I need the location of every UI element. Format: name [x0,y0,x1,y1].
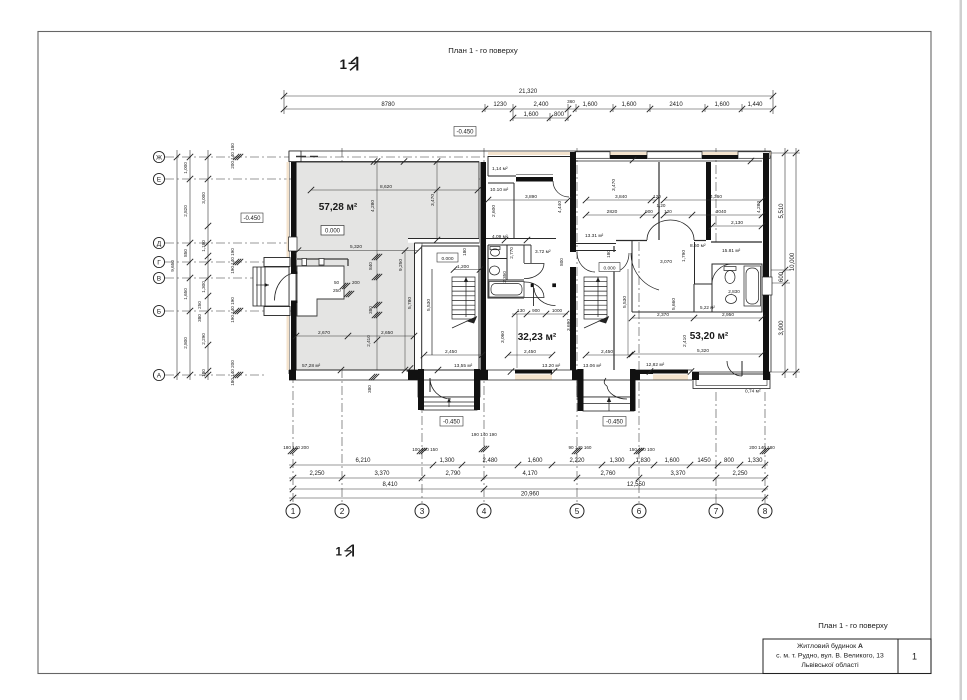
left vertical dim lines [177,150,208,380]
vestibule2 door arc [604,378,607,386]
wall pier marks [302,259,307,266]
corner notch top-left [289,151,301,162]
svg-text:4,360: 4,360 [710,194,722,200]
top face [289,150,771,152]
svg-text:1,650: 1,650 [183,288,188,300]
bottom bubbles [286,504,772,518]
svg-text:3,690: 3,690 [566,319,572,331]
svg-text:13.31 м²: 13.31 м² [585,233,604,239]
svg-text:8,410: 8,410 [382,482,398,488]
svg-text:1,300: 1,300 [201,281,206,293]
dim line third row [513,117,568,119]
svg-text:5,780: 5,780 [407,297,413,309]
svg-text:150 190 100: 150 190 100 [629,447,655,452]
row1 ticks [290,462,768,468]
svg-text:4,280: 4,280 [370,200,376,212]
svg-text:8,620: 8,620 [380,184,392,190]
apt1 tick clusters center [340,283,350,289]
left tick clusters [233,154,243,378]
svg-text:3,470: 3,470 [430,194,436,206]
ticks on room top [371,158,377,164]
svg-text:5: 5 [575,507,580,516]
apt2 niche 1,14 [487,155,570,176]
svg-text:1,600: 1,600 [664,458,680,464]
axis В [165,277,254,279]
bay door arc [727,361,742,376]
svg-text:2,350: 2,350 [502,271,507,283]
sink apt2 [490,266,500,275]
svg-text:А: А [157,373,162,380]
svg-text:32,23 м²: 32,23 м² [518,332,557,343]
bottom wall window 2 [653,370,688,374]
svg-text:2,250: 2,250 [309,471,325,477]
apt2 corridor door D1 [524,264,544,279]
wall ticks [502,237,508,243]
svg-text:3040: 3040 [716,209,727,215]
vestibule 1 [418,380,480,410]
svg-text:2,450: 2,450 [524,349,536,355]
svg-text:2,650: 2,650 [381,330,393,336]
svg-text:57,28 м²: 57,28 м² [302,363,321,369]
svg-text:50: 50 [334,280,340,285]
svg-text:3,890: 3,890 [525,194,537,200]
svg-text:1: 1 [291,507,296,516]
svg-text:3: 3 [420,507,425,516]
svg-text:20,960: 20,960 [521,492,540,498]
stair2 room wall [613,246,615,370]
svg-text:3,370: 3,370 [670,471,686,477]
svg-text:2,220: 2,220 [569,458,585,464]
porch wing walls [264,258,290,267]
svg-text:2,410: 2,410 [366,335,371,347]
apt1 vertical dim lines inside [376,162,378,371]
svg-text:6: 6 [637,507,642,516]
door jambs black [531,283,534,287]
svg-text:2,450: 2,450 [445,349,457,355]
svg-text:5,660: 5,660 [671,298,677,310]
row3 ticks [290,486,296,492]
bubble В [153,272,164,283]
svg-text:-0.450: -0.450 [443,420,461,426]
svg-text:2,250: 2,250 [732,471,748,477]
level box 0.000 apt1 [321,226,344,236]
apt1 stair room [422,246,479,370]
svg-text:1,14 м²: 1,14 м² [492,166,508,172]
axis А [165,374,265,376]
svg-text:1: 1 [340,57,348,72]
bubble Г [153,256,164,267]
scan artifact right edge [960,0,963,700]
right wall window [762,277,772,295]
apt3 arch arc [647,220,694,240]
bathtub apt2 [489,282,524,298]
svg-text:3,000: 3,000 [201,192,206,204]
svg-text:2,790: 2,790 [445,471,461,477]
svg-text:380: 380 [368,306,373,314]
svg-text:3,470: 3,470 [611,179,617,191]
apt3 toilet [724,267,736,284]
svg-text:2,670: 2,670 [318,330,330,336]
bubble Д [153,237,164,248]
svg-text:с. м. т. Рудно, вул. В. Велик: с. м. т. Рудно, вул. В. Великого, 13 [776,653,884,660]
stairs apt2/3 [584,277,609,328]
row4 ticks [290,495,296,501]
svg-text:2,130: 2,130 [731,220,743,226]
svg-text:180: 180 [201,369,206,377]
dim line 130/900/1000 [512,313,568,315]
svg-text:1,600: 1,600 [621,102,637,108]
svg-text:2: 2 [340,507,345,516]
apt3 dim 5,320 [632,353,762,355]
bath appliance marks [737,264,742,268]
svg-text:13.20 м²: 13.20 м² [542,363,561,369]
svg-text:1230: 1230 [493,102,507,108]
svg-text:800: 800 [554,112,565,118]
svg-text:90 140 160: 90 140 160 [569,445,592,450]
svg-text:1,440: 1,440 [747,102,763,108]
svg-text:180 140 200: 180 140 200 [230,360,235,386]
svg-text:800: 800 [724,458,735,464]
stairs apt1 [432,269,477,355]
svg-text:1,300: 1,300 [439,458,455,464]
svg-text:600: 600 [779,271,785,282]
party wall door gap [570,252,576,267]
svg-text:190 140 190: 190 140 190 [230,248,235,274]
svg-text:180: 180 [606,250,611,258]
svg-text:9,650: 9,650 [170,260,175,272]
svg-text:4,440: 4,440 [557,201,563,213]
niche window black bar [516,177,553,182]
svg-text:180: 180 [462,248,467,256]
svg-text:5,320: 5,320 [697,348,709,354]
svg-text:200 140 180: 200 140 180 [749,445,775,450]
svg-text:Б: Б [157,309,161,316]
svg-text:В: В [157,276,162,283]
svg-text:3,840: 3,840 [615,194,627,200]
axis Е [165,178,487,180]
party wall 2 black [570,152,576,370]
svg-text:12,82 м²: 12,82 м² [646,362,665,368]
svg-text:-0.450: -0.450 [606,420,624,426]
top wall inner line left [296,161,479,163]
right wall black [763,153,769,277]
svg-text:800: 800 [559,258,564,266]
svg-text:2,800: 2,800 [183,337,188,349]
svg-text:380: 380 [197,314,202,322]
bottom dim texts row1 [355,458,763,464]
svg-text:1,300: 1,300 [609,458,625,464]
svg-text:100 190 150: 100 190 150 [412,447,438,452]
svg-text:15.81 м²: 15.81 м² [722,248,741,254]
left face [288,151,290,374]
gray room fill apt1 [296,162,479,370]
svg-text:0.000: 0.000 [441,256,453,262]
svg-text:5,530: 5,530 [426,299,432,311]
bottom dim texts row3 [382,482,645,488]
svg-text:3,900: 3,900 [779,320,785,336]
stair2 top wall [576,243,616,245]
svg-text:2,410: 2,410 [682,335,688,347]
bubble А [153,369,164,380]
svg-text:3.72 м²: 3.72 м² [535,249,551,255]
10.10 door arc [553,181,569,197]
svg-text:8: 8 [763,507,768,516]
svg-text:13,55 м²: 13,55 м² [454,363,473,369]
column axis lines [292,374,294,503]
svg-text:2,950: 2,950 [722,312,734,318]
svg-text:8.60 м²: 8.60 м² [690,243,706,249]
level mark -0.450 top [454,127,476,137]
svg-text:840: 840 [368,262,373,270]
svg-text:0.000: 0.000 [325,229,341,235]
svg-text:Львівської області: Львівської області [801,661,859,669]
svg-text:10,000: 10,000 [790,252,796,271]
living room door arc apt2 [534,288,556,306]
apt3 black wall x706 [706,162,711,240]
room 10.10 walls [486,183,556,239]
svg-text:1,200: 1,200 [457,264,469,270]
svg-text:2,450: 2,450 [601,349,613,355]
top wall window boxes [575,152,770,159]
svg-text:120: 120 [653,194,661,199]
apt3 top dims [664,199,762,201]
svg-text:4: 4 [482,507,487,516]
svg-text:0,74 м²: 0,74 м² [745,389,761,395]
stair2 right door gap [613,252,617,271]
bottom dim texts row2 [309,471,748,477]
svg-text:2,600: 2,600 [491,205,497,217]
svg-text:57,28 м²: 57,28 м² [319,202,358,213]
svg-text:360: 360 [567,99,575,104]
svg-text:План 1 - го поверху: План 1 - го поверху [448,46,518,55]
svg-text:1,600: 1,600 [527,458,543,464]
svg-text:130: 130 [517,308,525,313]
bottom face lines [289,369,692,371]
svg-text:900: 900 [532,308,540,313]
svg-text:2,760: 2,760 [600,471,616,477]
right face [770,151,772,372]
svg-text:-0.450: -0.450 [243,216,261,222]
apt3 sink [726,295,737,304]
vestibule 2 [577,380,635,411]
title block [763,639,931,674]
svg-text:1: 1 [912,652,917,662]
apt2 bathroom [488,245,531,298]
svg-text:1: 1 [336,547,343,559]
apt3 wall y240 with arch [616,241,762,243]
svg-text:4,170: 4,170 [522,471,538,477]
entry door arc apt1 [275,273,297,301]
toilet apt2 [490,247,500,257]
svg-text:1,600: 1,600 [582,102,598,108]
svg-text:1,180: 1,180 [201,240,206,252]
svg-text:4,09 м²: 4,09 м² [492,234,508,240]
bottom wall window 1 [515,370,552,374]
bottom wall black stubs [289,370,296,380]
svg-text:3,070: 3,070 [660,259,672,265]
axis Д [165,242,290,244]
top wall inner line right [576,160,762,162]
svg-text:1,830: 1,830 [635,458,651,464]
svg-text:2,400: 2,400 [533,102,549,108]
section mark 1 bottom [336,545,355,559]
svg-text:Житловий будинок А: Житловий будинок А [797,642,863,650]
top wall black lintels [610,155,647,159]
svg-text:21,320: 21,320 [519,89,538,95]
svg-text:200 140 180: 200 140 180 [230,143,235,169]
apt3 dim line y318 [632,317,762,319]
apt2 top dims [586,199,656,201]
svg-text:200: 200 [352,280,360,285]
svg-text:180 140 200: 180 140 200 [283,445,309,450]
svg-text:250: 250 [333,288,341,293]
vestibule1 door arc [430,378,451,399]
svg-text:1000: 1000 [552,308,563,313]
svg-text:План 1 - го поверху: План 1 - го поверху [818,621,888,630]
left wall black + tan [287,162,290,370]
dim 5,320 [298,250,418,252]
svg-text:10.10 м²: 10.10 м² [490,187,509,193]
level marks -0.450 bottom [440,417,626,427]
svg-text:53,20 м²: 53,20 м² [690,331,729,342]
svg-text:2,770: 2,770 [509,247,514,259]
svg-text:9,250: 9,250 [398,259,404,271]
apt3 bathroom [632,240,762,312]
svg-text:13.06 м²: 13.06 м² [583,363,602,369]
svg-text:2,820: 2,820 [183,205,188,217]
svg-text:5,530: 5,530 [622,296,628,308]
svg-text:Д: Д [157,241,162,248]
apt2 corridor wall x524-531 [524,245,534,306]
svg-text:5,22 м²: 5,22 м² [700,305,715,310]
svg-text:5,320: 5,320 [350,244,362,250]
svg-text:1,600: 1,600 [714,102,730,108]
svg-text:190 140 190: 190 140 190 [471,432,497,437]
outer walls thin outline [289,151,771,380]
svg-text:3,060: 3,060 [500,331,506,343]
axis Г [165,261,290,263]
svg-text:2,370: 2,370 [657,312,669,318]
svg-text:900: 900 [645,209,653,214]
svg-text:1,000: 1,000 [183,162,188,174]
svg-text:1,330: 1,330 [747,458,763,464]
svg-text:4,280: 4,280 [756,201,762,213]
axis Б [165,310,292,312]
svg-text:Г: Г [157,260,161,267]
svg-text:850: 850 [183,249,188,257]
svg-text:2820: 2820 [607,209,618,215]
apt3 corridor door arc [631,253,659,290]
svg-text:6,210: 6,210 [355,458,371,464]
apt2 corridor door D2 [524,282,544,298]
level mark -0.450 left [241,213,263,223]
svg-text:250: 250 [197,301,202,309]
top wall tan strip right half [488,152,771,156]
hallway white apt1 [297,266,344,316]
apt3 partition x660 [658,162,660,240]
bubble Ж [153,151,164,162]
svg-text:Ж: Ж [156,155,162,162]
svg-text:2,480: 2,480 [482,458,498,464]
svg-text:8780: 8780 [381,102,395,108]
bottom small clusters [288,446,770,454]
svg-text:-0.450: -0.450 [456,130,474,136]
axis Ж [165,156,560,158]
bay bottom right [693,374,770,389]
section mark 1 top [340,57,359,72]
svg-text:1,20: 1,20 [657,203,666,208]
svg-text:380: 380 [367,385,372,393]
porch left [253,267,289,306]
svg-text:2,290: 2,290 [201,333,206,345]
svg-text:2,830: 2,830 [728,289,740,294]
svg-text:1,790: 1,790 [681,250,687,262]
bubble Е [153,173,164,184]
svg-text:12,550: 12,550 [627,482,646,488]
svg-text:5,510: 5,510 [779,203,785,219]
svg-text:1,600: 1,600 [523,112,539,118]
party wall 1 black [481,162,487,370]
apt3 bath door arc [712,264,732,284]
svg-text:Е: Е [157,177,162,184]
svg-text:7: 7 [714,507,719,516]
row2 ticks [290,475,768,481]
bubble Б [153,305,164,316]
svg-text:0.000: 0.000 [603,266,615,272]
apt1 inner dim 8,620 [311,189,478,191]
dim line second row [284,108,773,110]
stair1 labels [437,253,458,262]
dim line 21,320 [284,95,773,97]
svg-text:190 140 190: 190 140 190 [230,297,235,323]
svg-text:1450: 1450 [697,458,711,464]
porch arrow [256,284,269,286]
svg-text:2410: 2410 [669,102,683,108]
hall upper wall [297,259,348,266]
svg-text:3,370: 3,370 [374,471,390,477]
apt3 bathtub [744,266,761,306]
dim line 2,670/2,650 [296,335,414,337]
